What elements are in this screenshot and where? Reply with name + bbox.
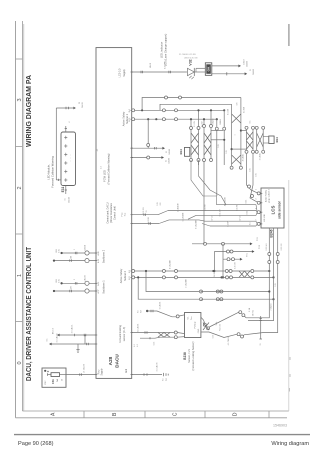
svg-text:Sup: Sup <box>125 213 127 216</box>
svg-text:0.35: 0.35 <box>247 211 249 215</box>
svg-text:DACU, DRIVER ASSISTANCE CONTRO: DACU, DRIVER ASSISTANCE CONTROL UNIT <box>24 247 33 381</box>
svg-text:S/4x: S/4x <box>216 322 218 326</box>
svg-text:2 CA240B: 2 CA240B <box>177 203 180 212</box>
svg-text:LIN18: LIN18 <box>150 62 152 68</box>
svg-text:1: 1 <box>74 249 76 250</box>
mesh vertical x216 <box>216 119 218 127</box>
LED module E11 box <box>61 132 76 186</box>
wire backbone1 a <box>62 282 96 284</box>
svg-text:S4/2B: S4/2B <box>214 271 216 277</box>
svg-text:3: 3 <box>255 198 257 199</box>
svg-text:3 CA241: 3 CA241 <box>259 153 262 160</box>
stub vertical to downlink2 <box>260 315 262 317</box>
grid letter tick C/D <box>204 411 206 418</box>
terminal arrow power lower <box>49 343 52 346</box>
bus wire A jog <box>158 211 168 215</box>
svg-text:Forward looking: Forward looking <box>119 325 122 343</box>
svg-text:31 CA136: 31 CA136 <box>137 324 140 332</box>
svg-text:0.35: 0.35 <box>218 144 220 148</box>
svg-text:Tw-: Tw- <box>188 316 190 320</box>
svg-text:30: 30 <box>62 379 64 381</box>
bus wire D <box>210 225 256 227</box>
svg-text:0.5 GN: 0.5 GN <box>194 120 196 126</box>
svg-text:PwSply: PwSply <box>195 322 197 329</box>
B246 pin circles <box>257 192 260 195</box>
OK indicator box <box>205 63 212 76</box>
arrow pair to CA240 <box>198 162 200 166</box>
svg-text:5A: 5A <box>56 379 59 382</box>
wire y299 continue <box>201 298 274 300</box>
svg-text:Supply: Supply <box>101 368 103 376</box>
wire DACU to V32 <box>132 71 187 73</box>
svg-text:Backbone 2: Backbone 2 <box>102 249 105 263</box>
link mesh to tp1b <box>203 119 205 124</box>
page frame outer bottom border <box>16 417 288 419</box>
svg-text:0.35 SB: 0.35 SB <box>237 204 239 211</box>
loop connector circles <box>165 96 168 99</box>
E11 pin glyph 4 <box>64 162 67 164</box>
svg-text:0.35 GN: 0.35 GN <box>281 243 283 250</box>
E11 pin glyph 6 <box>64 179 67 181</box>
B246 pin ticks <box>260 192 263 194</box>
svg-text:2: 2 <box>255 219 257 220</box>
central unit A28 DACU box <box>96 48 132 379</box>
svg-text:1: 1 <box>17 274 23 277</box>
svg-text:4 CA240: 4 CA240 <box>211 119 214 126</box>
vertical from subnet row <box>147 118 149 120</box>
off-page arrow LIN upper <box>238 64 241 67</box>
svg-text:Pow: Pow <box>98 369 100 374</box>
terminal backbone2 a <box>60 252 62 254</box>
svg-text:31 CA136: 31 CA136 <box>156 362 159 372</box>
svg-text:GND: GND <box>198 328 200 333</box>
B238 right upper circles <box>203 323 206 326</box>
svg-text:0.35: 0.35 <box>58 249 60 253</box>
resistor R14 first box <box>185 147 190 156</box>
arrow row from DACU 1 <box>132 147 163 149</box>
svg-text:31 CA124: 31 CA124 <box>56 333 59 343</box>
grid letter tick B/C <box>144 411 146 418</box>
svg-text:4:1: 4:1 <box>134 344 136 347</box>
side sensor B246 box <box>261 188 284 228</box>
svg-text:A:50: A:50 <box>97 259 100 263</box>
svg-text:4 CA240B: 4 CA240B <box>169 259 172 268</box>
svg-text:T3/1: T3/1 <box>257 236 259 241</box>
bus wire B mid <box>169 219 199 221</box>
off-page arrow lower <box>245 72 248 75</box>
svg-text:0.35 WH: 0.35 WH <box>266 243 268 251</box>
inline connector on y291 <box>200 290 203 293</box>
svg-text:A:49: A:49 <box>97 252 100 256</box>
svg-text:WIRING DIAGRAM PA: WIRING DIAGRAM PA <box>24 74 33 147</box>
svg-text:GN: GN <box>71 255 73 258</box>
tp column 1b circles <box>203 125 206 128</box>
grid tick 3/2 <box>16 58 23 60</box>
svg-text:CA124: CA124 <box>67 196 70 203</box>
svg-text:Tw+: Tw+ <box>191 315 193 320</box>
E11 pin glyph 2 <box>64 145 67 147</box>
terminal backbone1 a <box>60 282 62 284</box>
svg-text:0.5 VO: 0.5 VO <box>240 215 242 221</box>
svg-text:4: 4 <box>255 189 257 190</box>
chain to downlink3 <box>243 335 246 336</box>
wire backbone2 b <box>54 260 96 262</box>
DACU left edge pin ticks <box>95 252 97 254</box>
svg-text:1: 1 <box>234 135 236 136</box>
footer separator rule <box>14 434 310 436</box>
svg-text:GN: GN <box>236 102 238 105</box>
tiny right edge mark 2 <box>289 374 291 377</box>
tp column 1 circles <box>190 127 193 130</box>
wire supply stub to off-page arrow <box>56 107 73 109</box>
circles on downlinks <box>268 253 271 256</box>
twisted pair column A <box>246 130 248 150</box>
mesh link to tpA 1 <box>241 130 247 132</box>
svg-text:0.35: 0.35 <box>58 279 60 283</box>
B238 right wire upper <box>201 317 205 323</box>
svg-text:A28: A28 <box>108 356 113 365</box>
B238 right wire lower <box>201 332 237 338</box>
svg-text:B246: B246 <box>269 229 273 237</box>
svg-text:15 CA136: 15 CA136 <box>83 363 86 373</box>
bus feed diagonals <box>191 160 217 196</box>
grid letter tick D/end <box>268 411 270 418</box>
vertical connector right field <box>260 316 262 339</box>
circle on B238 feed <box>176 315 179 318</box>
drawing area right border <box>288 180 290 411</box>
vertical feed row1 <box>203 162 205 244</box>
wire splice to B238 <box>147 311 176 317</box>
splice dot T1 T2 <box>146 310 148 312</box>
svg-text:Control Unit): Control Unit) <box>114 206 117 220</box>
svg-text:Page 90 (268): Page 90 (268) <box>18 441 54 447</box>
ground symbol under power row <box>77 344 79 350</box>
svg-text:GN: GN <box>71 286 73 289</box>
svg-text:0.5: 0.5 <box>46 339 48 342</box>
grid number column inner line <box>22 21 24 411</box>
svg-text:T2/: T2/ <box>166 378 168 381</box>
svg-text:CA240: CA240 <box>245 60 248 67</box>
svg-text:C: C <box>172 412 178 416</box>
svg-text:Active Safety: Active Safety <box>122 111 125 126</box>
svg-text:D: D <box>232 412 238 416</box>
svg-text:31: 31 <box>65 198 67 201</box>
svg-text:Sensor, FLS: Sensor, FLS <box>188 349 191 363</box>
svg-text:0.35: 0.35 <box>275 283 277 287</box>
gnd terminal ticks <box>163 373 165 376</box>
bus wire B from DACU <box>132 223 159 225</box>
tiny bottom mark <box>288 388 290 392</box>
svg-text:0.5 WH: 0.5 WH <box>201 120 203 127</box>
resistor R14 second box <box>269 136 274 144</box>
svg-text:LED Module,: LED Module, <box>47 164 51 180</box>
svg-text:CA101: CA101 <box>81 101 84 108</box>
svg-text:V32: V32 <box>189 59 193 65</box>
DACU power wire lower <box>51 343 96 345</box>
svg-text:B:11: B:11 <box>129 276 131 280</box>
terminal backbone1 b <box>53 290 55 292</box>
svg-text:31: 31 <box>166 151 168 153</box>
wires into B238 lower pins <box>177 333 184 334</box>
fuse F31 element <box>51 373 60 377</box>
svg-text:0.5 BN: 0.5 BN <box>228 220 230 226</box>
grid tick 1/0 <box>16 233 23 235</box>
svg-text:31: 31 <box>165 160 167 162</box>
bus into B246 pins <box>256 205 257 213</box>
bus wire C <box>196 214 256 216</box>
wire backbone2 a <box>62 252 96 254</box>
wire OK to LIN arrow upper <box>212 65 239 67</box>
svg-text:0.5 WH: 0.5 WH <box>244 106 246 113</box>
svg-text:15 CA101: 15 CA101 <box>71 324 74 334</box>
drawing area bottom border <box>23 410 289 412</box>
svg-text:Subnet 2: Subnet 2 <box>124 270 127 281</box>
mesh link y139 left <box>211 139 223 141</box>
svg-text:A:36: A:36 <box>97 282 100 286</box>
wire V32 to OK box <box>194 71 205 73</box>
wire subnet1 b <box>135 118 217 120</box>
twisted pair column 1 <box>190 128 192 158</box>
svg-text:B:5: B:5 <box>129 270 131 273</box>
wire subnet1 a <box>135 109 225 111</box>
B246 downlink 3 <box>244 228 278 335</box>
svg-text:(Forward Collision Warning): (Forward Collision Warning) <box>107 153 110 184</box>
DACU gnd wire <box>132 374 162 376</box>
svg-text:0.35: 0.35 <box>153 342 155 346</box>
svg-text:31: 31 <box>260 344 262 346</box>
svg-text:Pow: Pow <box>122 212 124 216</box>
svg-text:3B/ Rm: 3B/ Rm <box>252 310 254 316</box>
svg-text:3: 3 <box>17 98 23 101</box>
bus wire B main <box>205 220 256 222</box>
svg-text:4.0 CA240: 4.0 CA240 <box>224 197 227 206</box>
svg-text:2: 2 <box>17 186 23 189</box>
svg-text:31 CA240 0.35 SB: 31 CA240 0.35 SB <box>179 53 196 56</box>
svg-text:R14: R14 <box>179 149 183 155</box>
svg-text:0.35: 0.35 <box>226 150 228 154</box>
chain circle pair lower <box>237 333 240 336</box>
twisted pair X lower <box>232 155 241 164</box>
E11 top pin wire <box>65 126 67 132</box>
wire y291 continue <box>201 291 270 293</box>
sensor B238 box <box>185 313 201 338</box>
DACU power wire upper <box>59 334 96 336</box>
bus wire A main <box>168 210 256 212</box>
bus wire 0 partial <box>217 204 257 206</box>
svg-text:0.5 VO: 0.5 VO <box>212 215 214 221</box>
svg-text:0: 0 <box>17 361 23 364</box>
svg-text:Backbone 1: Backbone 1 <box>102 280 105 294</box>
svg-text:0.35: 0.35 <box>212 335 214 339</box>
mesh vertical x240 <box>240 98 242 167</box>
wire top right corner <box>288 24 290 46</box>
circles before B238 pins <box>174 331 177 334</box>
svg-text:5 CA240B: 5 CA240B <box>182 212 185 221</box>
mesh connector circles row <box>162 109 165 112</box>
svg-text:T5/1: T5/1 <box>247 252 249 257</box>
svg-text:4: 4 <box>69 121 71 123</box>
grid tick 2/1 <box>16 146 23 148</box>
svg-text:0.35: 0.35 <box>256 173 258 177</box>
wire circle to B238 pin <box>179 315 184 316</box>
tiny right edge mark 1 <box>289 357 291 360</box>
mesh row2 nested <box>160 104 232 110</box>
svg-text:BN 0.5: BN 0.5 <box>52 327 54 334</box>
wire OK to arrow lower <box>212 73 245 75</box>
bus wire A from DACU <box>132 214 158 216</box>
terminal backbone2 b <box>53 259 55 261</box>
svg-text:6-2A: 6-2A <box>248 307 251 312</box>
svg-text:1546903: 1546903 <box>273 424 287 428</box>
twisted pair column 1b <box>203 128 205 158</box>
svg-text:LIN GND: LIN GND <box>264 214 266 222</box>
svg-text:4-1 CA136: 4-1 CA136 <box>227 337 230 346</box>
B246 downlink 1 <box>246 228 269 318</box>
subnet2 down branch <box>138 277 199 299</box>
svg-text:sensor (FLS): sensor (FLS) <box>123 327 126 342</box>
tp column B circles <box>255 126 258 129</box>
svg-text:2: 2 <box>74 279 76 280</box>
svg-text:LED, indicator: LED, indicator <box>159 42 163 58</box>
fuse F31 wire <box>48 374 52 376</box>
svg-text:· · · · · ·: · · · · · · <box>69 154 72 162</box>
arrow row from DACU 2 <box>132 157 162 159</box>
power rows bridge <box>84 335 86 344</box>
mesh link to R14 second <box>263 136 269 138</box>
DACU right edge pin ticks <box>131 71 133 73</box>
svg-text:A: A <box>50 412 56 416</box>
DACU pin circle subnet1 b <box>132 118 135 121</box>
mesh vertical x231 <box>231 104 233 166</box>
wire supply rail E11 <box>55 108 57 180</box>
svg-text:4:2: 4:2 <box>100 166 102 169</box>
DACU pin circle subnet1 a <box>132 109 135 112</box>
LED V32 symbol <box>188 68 195 75</box>
svg-text:Forward Collision Warning: Forward Collision Warning <box>50 156 54 188</box>
E11 pin glyph 3 <box>64 154 67 156</box>
svg-text:0.35 GR: 0.35 GR <box>143 207 145 214</box>
mesh diag to B246 pins <box>247 185 259 193</box>
fuse F31 box <box>42 368 66 387</box>
svg-text:B: B <box>112 412 118 416</box>
svg-text:PRC: PRC <box>45 380 47 385</box>
wire subnet2 b <box>135 276 273 278</box>
svg-text:prop. subnet 1: prop. subnet 1 <box>268 189 271 203</box>
svg-text:4:1: 4:1 <box>97 149 99 152</box>
wire backbone1 b <box>54 290 96 292</box>
svg-text:1 CA240B: 1 CA240B <box>185 278 188 287</box>
mesh circles above B246 <box>248 185 251 188</box>
svg-text:CA240: CA240 <box>168 149 171 155</box>
svg-text:0.5: 0.5 <box>250 121 252 124</box>
chain to downlink1 <box>245 317 246 318</box>
svg-text:FCW LED: FCW LED <box>102 170 106 182</box>
E11 bottom pin wire <box>65 186 67 195</box>
bus wire B jog <box>159 220 169 224</box>
arrow row 3 <box>223 258 240 260</box>
DACU pin circle subnet2 b <box>132 276 135 279</box>
svg-text:LIN18 0.35 GN: LIN18 0.35 GN <box>184 58 198 60</box>
subnet2 down branch 2 <box>146 271 199 292</box>
svg-text:CA104: CA104 <box>84 245 87 251</box>
tp column A circles <box>245 126 248 129</box>
svg-text:Active Safety: Active Safety <box>265 189 268 202</box>
fuse F31 plus terminal <box>44 370 46 372</box>
svg-text:6 CA240B: 6 CA240B <box>195 219 198 228</box>
svg-text:0.35: 0.35 <box>246 200 248 204</box>
link mesh to tp1 <box>190 119 192 126</box>
mesh verticals to B246 <box>246 154 248 185</box>
svg-text:0.5 GN: 0.5 GN <box>228 108 230 115</box>
svg-text:Rm 0.35: Rm 0.35 <box>219 324 221 331</box>
wire F31 to DACU <box>66 374 96 376</box>
svg-text:31: 31 <box>250 68 252 71</box>
svg-text:LCS (Lane Change support): LCS (Lane Change support) <box>163 34 167 67</box>
terminal arrow power upper <box>57 334 60 337</box>
mesh link y130 left <box>211 130 223 132</box>
junction dot subnet1 <box>155 118 157 120</box>
svg-text:0.5: 0.5 <box>250 222 252 225</box>
drawing area right border dark top segment <box>288 24 290 46</box>
bus wire B jog2 <box>199 220 205 221</box>
grid letter tick A/B <box>83 411 85 418</box>
mesh wire bend a <box>134 109 136 111</box>
svg-text:T3/2: T3/2 <box>259 244 261 249</box>
vertical feed row2 <box>213 252 215 272</box>
mesh vertical x224 <box>223 110 225 127</box>
svg-text:R14: R14 <box>275 137 279 143</box>
B246 downlink 2 <box>248 228 274 321</box>
svg-text:E11: E11 <box>61 186 65 192</box>
upper loop wire <box>142 98 241 111</box>
B238 left lower wire <box>132 332 174 334</box>
svg-text:CAN-H: CAN-H <box>219 118 222 125</box>
svg-text:4:2: 4:2 <box>137 344 139 347</box>
svg-text:DACU: DACU <box>115 354 120 368</box>
svg-text:0.35 GN: 0.35 GN <box>234 261 236 268</box>
wire subnet2 a <box>135 270 269 272</box>
svg-text:0.35: 0.35 <box>157 202 159 206</box>
twisted pair X upper <box>232 114 241 123</box>
svg-text:T1/: T1/ <box>163 378 165 381</box>
svg-text:30: 30 <box>79 101 81 104</box>
svg-text:side sensor: side sensor <box>278 200 282 218</box>
svg-text:B:4: B:4 <box>129 109 131 112</box>
twisted pair B238 left <box>158 333 164 338</box>
mesh link to tpA 2 <box>232 148 247 150</box>
svg-text:31: 31 <box>146 211 148 213</box>
svg-text:Active Safety: Active Safety <box>120 268 123 283</box>
svg-text:4 CA241: 4 CA241 <box>242 154 245 161</box>
off-page arrow 30-feed <box>73 107 76 110</box>
svg-text:F31: F31 <box>51 379 55 384</box>
chain circle pair upper <box>239 311 242 314</box>
B238 left lower wire b <box>140 337 174 338</box>
twisted pair crossover subnet2 <box>239 271 245 277</box>
vertical feed row3 <box>222 244 224 278</box>
svg-text:0.35 GR: 0.35 GR <box>220 209 222 217</box>
DACU pin circle subnet2 a <box>132 270 135 273</box>
svg-text:B238: B238 <box>183 352 187 360</box>
svg-text:0.35: 0.35 <box>249 168 251 172</box>
svg-text:Supply: Supply <box>123 69 126 77</box>
svg-text:Gnd: Gnd <box>126 368 128 373</box>
crossover B238 right <box>203 323 209 331</box>
svg-text:CA240: CA240 <box>252 68 255 75</box>
svg-text:T2/: T2/ <box>141 310 143 313</box>
svg-text:Wiring diagram: Wiring diagram <box>271 441 309 447</box>
arrow row T3-1 <box>192 243 250 245</box>
